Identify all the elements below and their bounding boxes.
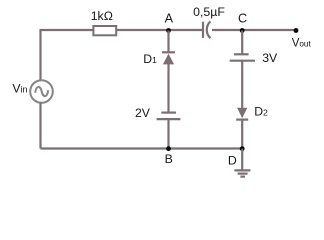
svg-text:D1: D1	[143, 52, 157, 66]
svg-text:Vout: Vout	[292, 37, 312, 49]
wire D1 to battery 2V	[167, 64, 169, 113]
value label 3V	[262, 51, 278, 65]
value label 0,5µF	[193, 5, 225, 19]
diode D1 triangle (pointing up)	[163, 54, 174, 65]
AC source sine wave	[35, 87, 48, 96]
svg-text:0,5µF: 0,5µF	[193, 5, 225, 19]
svg-text:B: B	[165, 152, 173, 166]
node D junction dot	[240, 146, 245, 151]
wire battery 3V to D2	[241, 61, 243, 108]
svg-text:1kΩ: 1kΩ	[91, 9, 113, 23]
svg-text:3V: 3V	[262, 51, 278, 65]
node C junction dot	[240, 28, 245, 33]
terminal dot Vout	[294, 28, 299, 33]
capacitor C1 curved right plate	[207, 21, 211, 38]
svg-text:Vin: Vin	[12, 81, 27, 95]
wire node C down to battery 3V	[241, 31, 243, 55]
svg-text:D: D	[228, 154, 237, 168]
resistor R 1kΩ body	[93, 26, 116, 35]
wire node A down to D1	[167, 31, 169, 53]
AC source Vin circle	[30, 80, 53, 103]
wire resistor to capacitor (through node A)	[116, 29, 202, 31]
diode D2 triangle (pointing down)	[237, 108, 247, 118]
value label 1kΩ	[91, 9, 113, 23]
battery 2V short plate	[161, 111, 176, 113]
node A junction dot	[166, 28, 171, 33]
node A label	[165, 11, 174, 25]
wire left vertical lower (source to bottom corner)	[39, 103, 41, 149]
wire top-left horizontal from Vin corner to resistor	[41, 29, 94, 31]
ground stem wire	[241, 149, 243, 171]
diode D1 cathode bar	[162, 51, 175, 53]
wire D2 to node D	[241, 120, 243, 149]
wire battery 2V to node B	[167, 119, 169, 148]
value label 2V	[135, 106, 151, 120]
battery 3V long plate	[230, 60, 255, 62]
node B junction dot	[166, 146, 171, 151]
node C label	[238, 11, 247, 25]
node D label	[228, 154, 237, 168]
svg-text:D2: D2	[254, 105, 268, 119]
battery 2V long plate	[157, 118, 181, 120]
ground symbol bars	[234, 170, 250, 176]
svg-text:C: C	[238, 11, 247, 25]
wire capacitor to Vout terminal (through node C)	[212, 29, 296, 31]
label Vout	[292, 37, 312, 49]
diode D2 cathode bar	[236, 118, 248, 120]
wire left vertical upper (corner to source)	[39, 29, 41, 81]
label Vin	[12, 81, 27, 95]
svg-text:2V: 2V	[135, 106, 151, 120]
capacitor C1 0,5µF left plate	[202, 22, 204, 38]
wire bottom horizontal B rail	[41, 147, 243, 149]
node B label	[165, 152, 173, 166]
label D2	[254, 105, 268, 119]
svg-text:A: A	[165, 11, 174, 25]
label D1	[143, 52, 157, 66]
battery 3V short plate	[234, 53, 249, 55]
